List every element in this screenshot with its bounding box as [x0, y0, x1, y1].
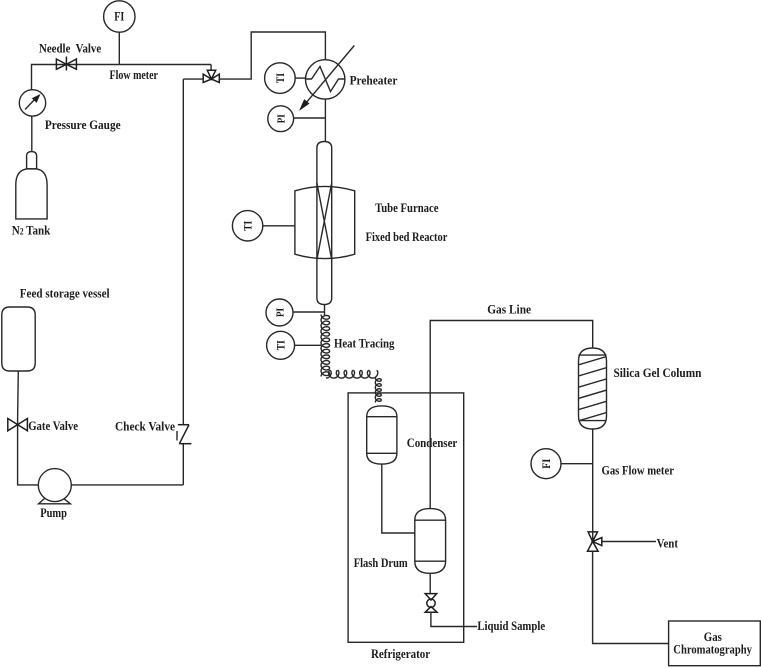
pressure gauge PG1	[19, 90, 45, 116]
svg-text:Gas Line: Gas Line	[487, 302, 531, 317]
svg-text:Refrigerator: Refrigerator	[371, 646, 430, 661]
svg-text:Tube Furnace: Tube Furnace	[375, 200, 439, 215]
wire preheater to reactor tube	[324, 99, 326, 141]
svg-text:Condenser: Condenser	[407, 435, 458, 450]
wire pump to check valve	[71, 484, 183, 486]
heat tracing coil horizontal	[326, 371, 378, 379]
reactor tube	[317, 142, 332, 305]
svg-text:Check Valve: Check Valve	[115, 419, 175, 434]
three-way valve V1	[203, 65, 219, 83]
wire TI2 to furnace	[263, 225, 295, 227]
catalyst bed X	[317, 183, 332, 260]
svg-text:Chromatography: Chromatography	[673, 641, 752, 656]
wire tube to heat tracing	[324, 305, 326, 317]
svg-text:Gate Valve: Gate Valve	[28, 418, 78, 433]
wire condenser to flash drum	[382, 464, 415, 533]
svg-text:N2 Tank: N2 Tank	[12, 223, 51, 238]
svg-text:Flow meter: Flow meter	[110, 67, 159, 82]
gas flow indicator FI2	[531, 449, 561, 479]
feed storage vessel	[2, 307, 35, 371]
wire FI to flow line	[118, 32, 120, 64]
svg-text:TI: TI	[241, 221, 255, 231]
wire vessel to pump	[18, 371, 39, 485]
preheater E1	[299, 46, 354, 111]
flow indicator FI (top)	[104, 1, 135, 32]
temperature indicator TI2 (furnace)	[232, 211, 262, 241]
wire gas line riser	[430, 321, 593, 509]
wire FI2 to line	[561, 463, 593, 465]
svg-text:Vent: Vent	[657, 536, 679, 551]
svg-text:TI: TI	[274, 340, 288, 350]
svg-text:TI: TI	[273, 73, 287, 83]
svg-text:Needle Valve: Needle Valve	[39, 41, 101, 56]
svg-text:Heat Tracing: Heat Tracing	[334, 336, 395, 351]
liquid sample valve V3	[425, 573, 437, 612]
svg-text:PI: PI	[276, 114, 288, 123]
svg-text:Gas Flow meter: Gas Flow meter	[602, 463, 675, 478]
wire PI1 to line	[294, 117, 326, 119]
check valve CV1	[177, 425, 191, 444]
flash drum vessel	[415, 509, 446, 574]
refrigerator box	[348, 393, 464, 642]
svg-text:PI: PI	[275, 308, 287, 317]
pressure indicator PI1	[268, 106, 294, 132]
wire liquid sample	[431, 612, 477, 626]
temperature indicator TI3	[267, 331, 295, 359]
vent valve V2	[588, 532, 602, 551]
pressure indicator PI2	[266, 299, 293, 326]
wire main flow line	[32, 65, 212, 91]
svg-text:Pressure Gauge: Pressure Gauge	[45, 117, 121, 132]
wire check valve riser	[182, 79, 184, 425]
wire vent valve to GC	[593, 551, 669, 643]
silica gel column	[579, 348, 607, 429]
svg-text:Fixed bed Reactor: Fixed bed Reactor	[366, 229, 448, 244]
svg-text:Preheater: Preheater	[350, 72, 398, 87]
pump P1	[38, 469, 71, 504]
svg-text:FI: FI	[539, 458, 553, 468]
tube furnace box	[295, 186, 355, 258]
N2 tank	[16, 152, 47, 219]
gas chromatography box	[669, 621, 761, 666]
svg-text:FI: FI	[114, 9, 124, 24]
wire vent line	[602, 541, 656, 543]
svg-text:Flash Drum: Flash Drum	[354, 555, 408, 570]
heat tracing coil vertical	[321, 315, 330, 377]
wire column down	[592, 429, 594, 541]
wire TI1 to preheater	[295, 77, 305, 79]
gate valve GV1	[8, 419, 28, 431]
wire TI3 to heat tracing	[295, 344, 321, 346]
svg-text:Pump: Pump	[40, 505, 67, 520]
wire valve V1 to preheater	[219, 32, 325, 79]
svg-text:Silica Gel Column: Silica Gel Column	[614, 365, 703, 380]
svg-text:Liquid Sample: Liquid Sample	[477, 618, 545, 633]
svg-text:Feed storage vessel: Feed storage vessel	[20, 286, 110, 301]
needle valve NV1	[56, 57, 76, 71]
temperature indicator TI1 (preheater)	[265, 63, 296, 94]
condenser vessel	[367, 406, 397, 464]
wire PI2 to line	[293, 311, 325, 313]
wire valve V1 to check-valve riser	[183, 78, 203, 80]
heat tracing coil drop	[375, 378, 381, 403]
wire gauge to tank	[31, 116, 33, 152]
